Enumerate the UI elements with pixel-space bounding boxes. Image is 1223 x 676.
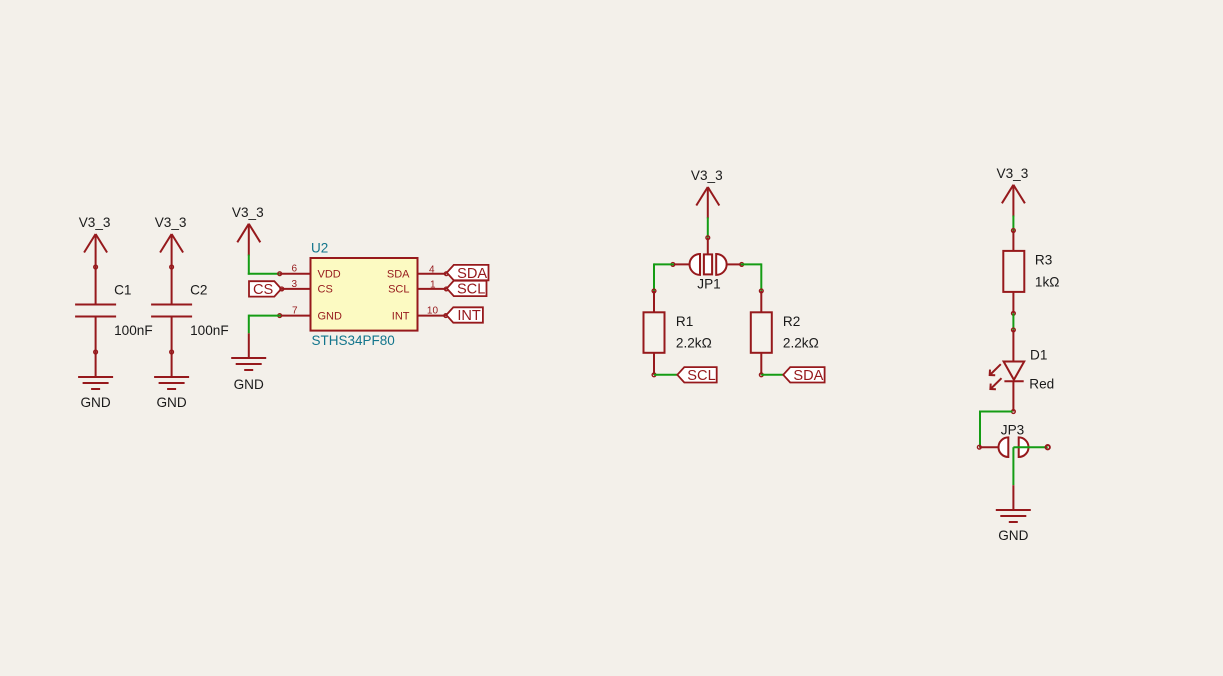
- R2 top pin: [760, 291, 762, 312]
- wire JP1 to R1: [654, 263, 674, 291]
- svg-text:SCL: SCL: [687, 368, 715, 384]
- svg-text:GND: GND: [80, 395, 110, 410]
- pin junction above R2: [759, 289, 763, 293]
- R3 bottom pin: [1012, 292, 1014, 313]
- pin junction below C2: [170, 350, 174, 354]
- junction at U2 pin 6: [278, 272, 282, 276]
- svg-text:R3: R3: [1035, 252, 1052, 267]
- svg-text:7: 7: [292, 305, 298, 316]
- power symbol V3_3 (near R3): [1002, 185, 1025, 204]
- svg-text:CS: CS: [318, 284, 333, 296]
- svg-text:CS: CS: [253, 282, 274, 298]
- pin junction above R1: [652, 289, 656, 293]
- svg-text:1: 1: [430, 280, 436, 291]
- svg-text:6: 6: [291, 264, 297, 275]
- svg-text:VDD: VDD: [318, 269, 341, 281]
- JP1 pin 1 lead (left): [673, 263, 690, 265]
- junction at JP1 pin 2: [740, 263, 744, 267]
- svg-text:V3_3: V3_3: [232, 205, 264, 220]
- junction above R3: [1012, 229, 1016, 233]
- wire V3_3 to JP1: [707, 217, 709, 237]
- net label SCL (at U2 pin 1): [447, 281, 487, 298]
- wire JP1 to R2: [741, 263, 762, 291]
- U2 pin 3 CS lead: [282, 288, 311, 290]
- wire V3_3 to U2 pin 6: [248, 255, 280, 275]
- wire JP3 to right stub: [1013, 446, 1047, 448]
- pin of V3_3 symbol near U2: [248, 224, 250, 256]
- junction at U2 pin 7: [278, 314, 282, 318]
- net label INT (at U2 pin 10): [446, 307, 483, 324]
- svg-text:V3_3: V3_3: [155, 215, 187, 230]
- R1 bottom pin: [653, 353, 655, 375]
- R1 top pin: [653, 291, 655, 312]
- junction below D1: [1012, 410, 1016, 414]
- svg-text:JP1: JP1: [697, 276, 720, 291]
- power symbol V3_3 (near U2): [237, 224, 260, 243]
- svg-text:GND: GND: [234, 377, 264, 392]
- svg-text:2.2kΩ: 2.2kΩ: [783, 336, 819, 351]
- svg-text:GND: GND: [318, 310, 343, 322]
- power symbol V3_3 (above C2): [160, 234, 183, 253]
- svg-text:1kΩ: 1kΩ: [1035, 274, 1060, 289]
- JP1 pin 2 lead (right): [727, 263, 742, 265]
- wire U2 pin 7 to GND: [249, 315, 281, 334]
- resistor R2: [751, 312, 772, 353]
- wire R3 to D1: [1012, 313, 1014, 330]
- junction below R2: [759, 373, 763, 377]
- ground symbol (below C1): [78, 377, 113, 389]
- svg-text:R1: R1: [676, 314, 693, 329]
- junction at JP1 pin 3: [706, 236, 710, 240]
- U2 pin 4 SDA lead: [418, 273, 447, 275]
- LED D1 triangle and cathode bar: [1004, 362, 1025, 382]
- pin junction below C1: [94, 350, 98, 354]
- svg-text:100nF: 100nF: [190, 323, 229, 338]
- resistor R1: [644, 312, 665, 353]
- capacitor C2: [151, 305, 192, 317]
- svg-text:SDA: SDA: [457, 266, 487, 282]
- U2 pin 1 SCL lead: [418, 288, 447, 290]
- wire JP3 to GND: [1012, 447, 1014, 485]
- svg-text:2.2kΩ: 2.2kΩ: [676, 336, 712, 351]
- GND stem below U2: [248, 333, 250, 358]
- LED emission arrow 1: [990, 364, 1001, 375]
- junction below R3: [1012, 311, 1016, 315]
- power symbol V3_3 (above C1): [84, 234, 107, 253]
- svg-text:GND: GND: [998, 528, 1028, 543]
- junction at JP1 pin 1: [671, 263, 675, 267]
- wire R1 to SCL label: [654, 374, 677, 376]
- R2 bottom pin: [760, 353, 762, 375]
- U2 pin 6 VDD lead: [280, 273, 311, 275]
- jumper JP1: [690, 254, 727, 275]
- ground symbol (below U2): [231, 358, 266, 370]
- svg-text:SCL: SCL: [457, 282, 485, 298]
- stub end junction: [1046, 445, 1050, 449]
- svg-text:C1: C1: [114, 283, 131, 298]
- JP1 pin 3 stem: [707, 238, 709, 255]
- jumper JP3: [999, 437, 1029, 457]
- svg-text:C2: C2: [190, 283, 207, 298]
- resistor R3: [1003, 251, 1024, 292]
- pin of V3_3 symbol near JP1: [707, 187, 709, 218]
- D1 anode pin: [1012, 330, 1014, 362]
- pin junction above C2: [170, 265, 174, 269]
- pin end at SDA label: [444, 272, 448, 276]
- svg-text:U2: U2: [311, 240, 328, 255]
- net label SDA (below R2): [783, 367, 824, 384]
- junction below R1: [652, 373, 656, 377]
- svg-text:V3_3: V3_3: [997, 166, 1029, 181]
- wire R2 to SDA label: [761, 374, 783, 376]
- svg-text:INT: INT: [457, 308, 481, 324]
- ground symbol (below JP3): [996, 510, 1031, 522]
- pin end at SCL label: [444, 287, 448, 291]
- LED emission arrow 2: [990, 378, 1001, 389]
- svg-text:SDA: SDA: [387, 269, 410, 281]
- svg-text:10: 10: [427, 306, 439, 317]
- svg-text:STHS34PF80: STHS34PF80: [312, 333, 395, 348]
- power symbol V3_3 (near JP1): [696, 187, 719, 206]
- U2 pin 7 GND lead: [280, 315, 311, 317]
- wire D1 to JP3: [980, 411, 1012, 448]
- svg-text:Red: Red: [1029, 377, 1054, 392]
- svg-text:100nF: 100nF: [114, 323, 153, 338]
- net label SDA (at U2 pin 4): [447, 265, 489, 282]
- wire V3_3 to R3: [1012, 216, 1014, 231]
- svg-text:4: 4: [429, 264, 435, 275]
- wire C1 to GND: [95, 317, 97, 378]
- GND stem below JP3: [1012, 485, 1014, 510]
- wire C2 to GND: [171, 317, 173, 378]
- svg-text:3: 3: [291, 279, 297, 290]
- pin end at INT label: [444, 314, 448, 318]
- D1 cathode pin: [1012, 381, 1014, 411]
- junction at JP3 pin 1: [977, 445, 981, 449]
- svg-text:INT: INT: [392, 310, 410, 322]
- IC U2 STHS34PF80 body: [311, 258, 418, 331]
- ground symbol (below C2): [154, 377, 189, 389]
- svg-text:D1: D1: [1030, 347, 1047, 362]
- svg-text:JP3: JP3: [1001, 422, 1024, 437]
- pin junction above C1: [94, 265, 98, 269]
- capacitor C1: [75, 305, 116, 317]
- svg-text:V3_3: V3_3: [79, 215, 111, 230]
- junction above D1: [1012, 328, 1016, 332]
- U2 pin 10 INT lead: [418, 315, 446, 317]
- svg-text:SCL: SCL: [388, 284, 409, 296]
- svg-text:SDA: SDA: [793, 368, 823, 384]
- JP3 pin 1 lead (left): [979, 446, 999, 448]
- svg-text:GND: GND: [156, 395, 186, 410]
- svg-text:R2: R2: [783, 314, 800, 329]
- wire V3_3 to C2: [171, 234, 173, 305]
- svg-text:V3_3: V3_3: [691, 168, 723, 183]
- R3 top pin: [1012, 231, 1014, 251]
- net label SCL (below R1): [677, 367, 716, 384]
- pin of V3_3 symbol near R3: [1012, 185, 1014, 217]
- wire V3_3 to C1: [95, 234, 97, 305]
- pin end at CS label: [280, 287, 284, 291]
- net label CS (at U2 pin 3): [249, 281, 281, 298]
